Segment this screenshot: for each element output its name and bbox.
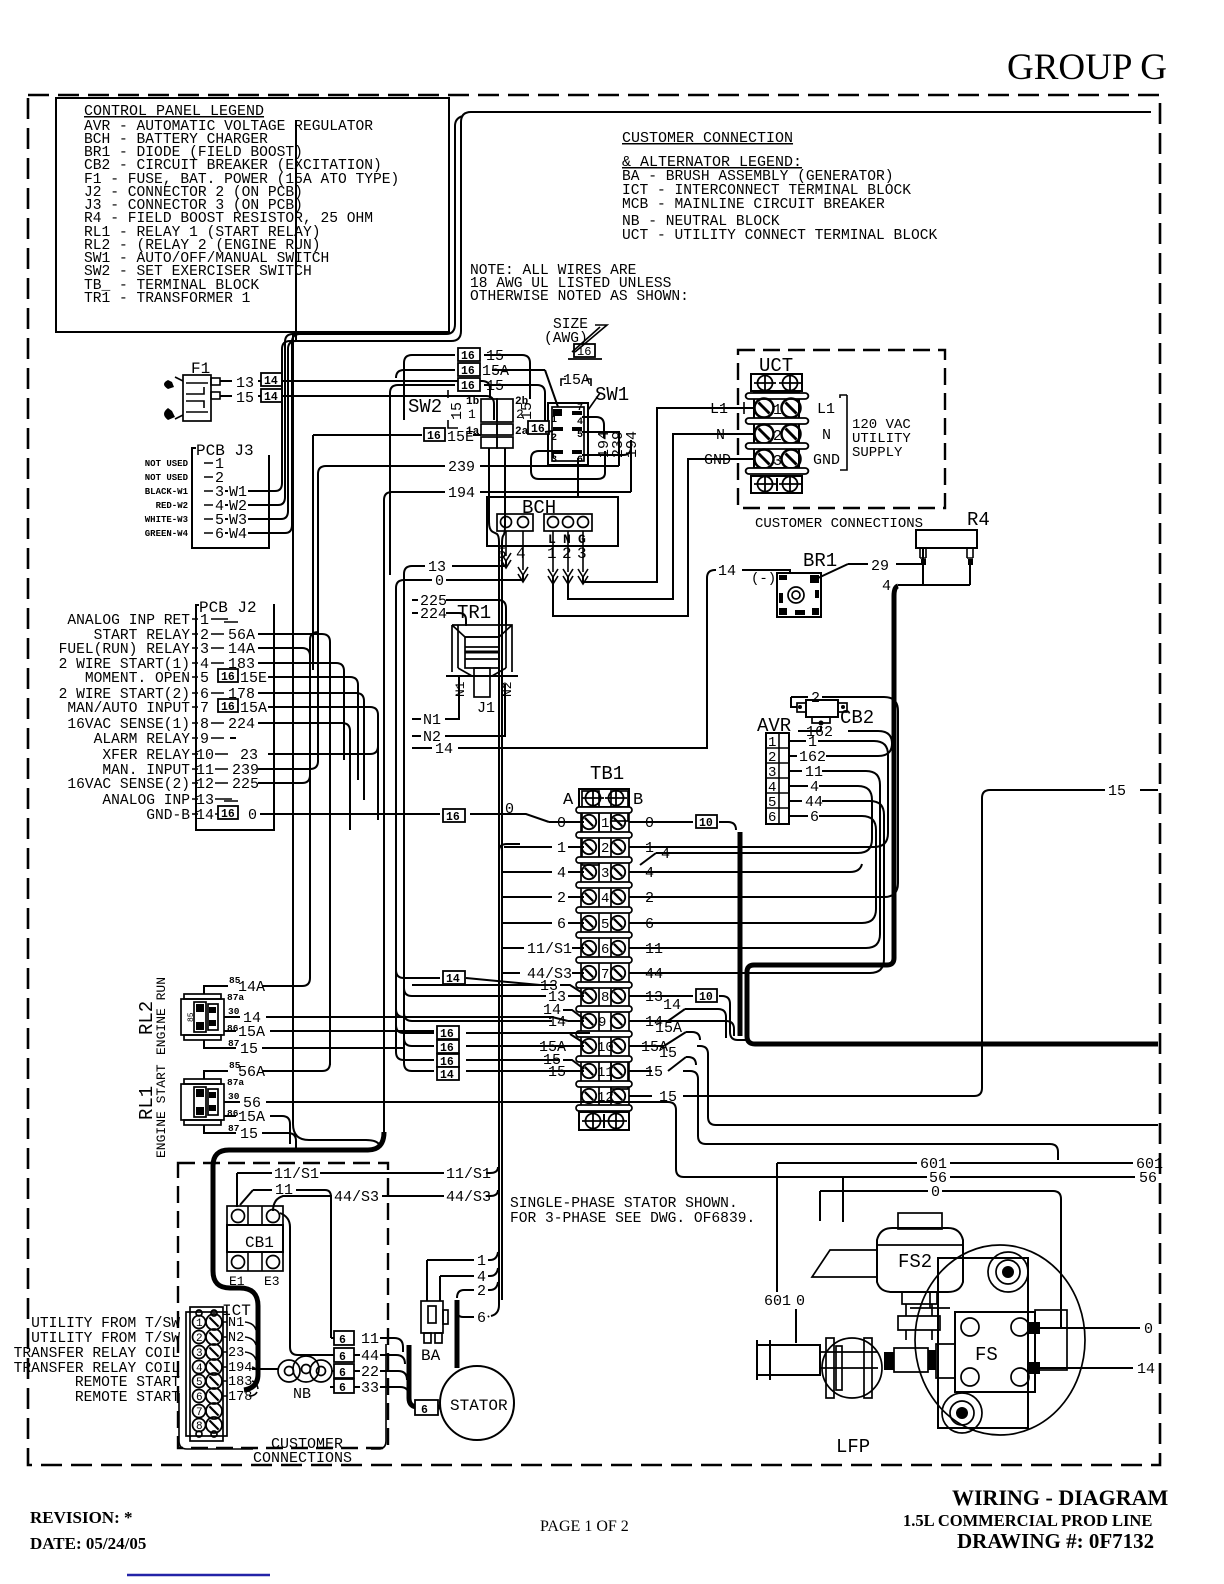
4 wire from R4 to thick bus <box>898 584 970 586</box>
svg-text:56: 56 <box>1139 1170 1157 1187</box>
wire 239 and wire 194 <box>318 466 619 700</box>
svg-text:16: 16 <box>577 345 591 359</box>
svg-text:GREEN-W4: GREEN-W4 <box>145 529 189 539</box>
svg-text:CONNECTIONS: CONNECTIONS <box>253 1450 352 1467</box>
svg-text:ALARM RELAY: ALARM RELAY <box>94 732 191 748</box>
control panel legend box <box>56 98 449 332</box>
svg-text:TRANSFER RELAY COIL: TRANSFER RELAY COIL <box>14 1346 180 1362</box>
svg-text:UTILITY FROM T/SW: UTILITY FROM T/SW <box>31 1316 180 1332</box>
svg-text:SW2: SW2 <box>408 396 442 418</box>
pins <box>553 409 582 454</box>
svg-text:9: 9 <box>598 1015 606 1031</box>
svg-text:2: 2 <box>811 690 820 707</box>
wire 4 heavy bus from R4 to border <box>747 586 1158 1044</box>
svg-text:SINGLE-PHASE STATOR SHOWN.: SINGLE-PHASE STATOR SHOWN. <box>510 1196 738 1212</box>
fuse F1 <box>164 360 494 421</box>
svg-text:N1: N1 <box>453 681 468 697</box>
svg-text:6: 6 <box>645 916 654 933</box>
14 wire long <box>412 578 707 748</box>
BA connector <box>421 1301 443 1333</box>
right connector <box>1035 1310 1067 1370</box>
svg-text:DRAWING #: 0F7132: DRAWING #: 0F7132 <box>957 1529 1154 1553</box>
svg-text:PCB J3: PCB J3 <box>196 442 254 460</box>
svg-text:1: 1 <box>468 407 476 422</box>
svg-text:GROUP G: GROUP G <box>1007 47 1167 88</box>
13 / 0 wires <box>412 560 506 566</box>
svg-text:14: 14 <box>440 1069 454 1082</box>
svg-text:12: 12 <box>597 1090 614 1106</box>
size (awg) callout <box>544 317 607 359</box>
svg-text:FS2: FS2 <box>898 1251 932 1273</box>
svg-text:6: 6 <box>215 526 224 543</box>
left bracket <box>757 1340 820 1380</box>
LFP <box>822 1338 882 1398</box>
svg-text:224: 224 <box>420 606 447 623</box>
svg-text:16: 16 <box>531 423 545 436</box>
svg-text:16: 16 <box>446 811 460 824</box>
B-side labels <box>641 815 682 1106</box>
svg-text:11/S1: 11/S1 <box>274 1166 319 1183</box>
outer dashed border <box>28 95 1160 1465</box>
svg-text:14: 14 <box>196 807 214 824</box>
svg-text:0: 0 <box>645 815 654 832</box>
svg-text:FS: FS <box>975 1344 998 1366</box>
svg-text:E3: E3 <box>264 1274 280 1289</box>
svg-text:15: 15 <box>240 1041 258 1058</box>
svg-text:44/S3: 44/S3 <box>446 1189 491 1206</box>
svg-text:4: 4 <box>645 865 654 882</box>
svg-text:N2: N2 <box>228 1331 244 1346</box>
svg-text:12: 12 <box>196 776 214 793</box>
FS2 body <box>877 1228 963 1292</box>
svg-text:11: 11 <box>645 941 663 958</box>
svg-text:6: 6 <box>768 810 776 826</box>
svg-text:225: 225 <box>232 776 259 793</box>
resistor R4 <box>916 509 990 585</box>
svg-text:178: 178 <box>228 1390 252 1405</box>
14 wire into BR1 <box>707 570 790 578</box>
svg-text:10: 10 <box>699 991 713 1004</box>
svg-text:4: 4 <box>601 891 609 907</box>
svg-text:194: 194 <box>624 431 641 458</box>
svg-text:86: 86 <box>227 1023 239 1034</box>
svg-text:2: 2 <box>557 890 566 907</box>
svg-text:0: 0 <box>505 801 514 818</box>
thick bus around CB1 <box>213 1132 384 1390</box>
svg-text:16: 16 <box>221 671 235 684</box>
svg-text:14: 14 <box>718 563 736 580</box>
rows <box>582 815 625 1106</box>
svg-text:15E: 15E <box>240 670 267 687</box>
svg-text:STATOR: STATOR <box>450 1397 508 1415</box>
svg-text:15: 15 <box>240 1126 258 1143</box>
svg-text:194: 194 <box>228 1361 252 1376</box>
svg-text:REMOTE START: REMOTE START <box>75 1390 180 1406</box>
svg-text:DATE: 05/24/05: DATE: 05/24/05 <box>30 1534 146 1553</box>
svg-text:L1: L1 <box>710 401 728 418</box>
svg-text:REVISION: *: REVISION: * <box>30 1508 133 1527</box>
svg-text:6: 6 <box>477 1310 486 1327</box>
svg-text:23: 23 <box>228 1346 244 1361</box>
wire bundle verticals (nets 13/14/15A/15) <box>395 588 397 1052</box>
svg-text:44: 44 <box>361 1348 379 1365</box>
svg-text:11/S1: 11/S1 <box>527 941 572 958</box>
svg-text:6: 6 <box>339 1367 346 1380</box>
svg-text:1: 1 <box>557 840 566 857</box>
svg-text:16VAC SENSE(2): 16VAC SENSE(2) <box>67 777 190 793</box>
15A 15A 15 15 wires <box>396 1025 590 1033</box>
svg-text:601: 601 <box>764 1293 791 1310</box>
svg-text:15: 15 <box>486 378 504 395</box>
svg-text:6: 6 <box>339 1351 346 1364</box>
svg-text:22: 22 <box>361 1364 379 1381</box>
svg-text:SW1: SW1 <box>595 384 629 406</box>
svg-text:16: 16 <box>461 380 475 393</box>
svg-text:16: 16 <box>461 350 475 363</box>
svg-text:85: 85 <box>187 1012 196 1022</box>
29 wire <box>818 548 923 578</box>
NB <box>278 1356 332 1382</box>
svg-text:44: 44 <box>645 966 663 983</box>
connection wires to UCT <box>553 459 747 616</box>
svg-text:11: 11 <box>361 1331 379 1348</box>
wire 56 from RL1 to fuel solenoid net <box>676 1110 843 1177</box>
svg-text:A: A <box>563 791 574 810</box>
svg-text:BLACK-W1: BLACK-W1 <box>145 487 189 497</box>
N1 N2 wires <box>412 676 459 719</box>
svg-text:2a: 2a <box>515 426 529 438</box>
svg-text:1: 1 <box>196 1318 203 1330</box>
svg-text:W4: W4 <box>229 526 247 543</box>
svg-text:B: B <box>633 791 643 810</box>
svg-text:15: 15 <box>548 1064 566 1081</box>
svg-text:OTHERWISE NOTED AS SHOWN:: OTHERWISE NOTED AS SHOWN: <box>470 289 689 305</box>
svg-text:2: 2 <box>601 841 609 857</box>
svg-text:4: 4 <box>577 417 583 428</box>
svg-text:UTILITY FROM T/SW: UTILITY FROM T/SW <box>31 1331 180 1347</box>
svg-text:7: 7 <box>577 403 583 414</box>
svg-text:XFER RELAY: XFER RELAY <box>102 748 190 764</box>
svg-text:R4: R4 <box>967 509 990 531</box>
note <box>470 263 689 305</box>
nut stack below FS2 <box>898 1292 940 1340</box>
svg-text:N1: N1 <box>228 1316 244 1331</box>
svg-text:15A: 15A <box>563 372 590 389</box>
wire 56 <box>843 1176 1135 1178</box>
svg-text:1: 1 <box>477 1253 486 1270</box>
svg-text:87a: 87a <box>227 1077 244 1088</box>
svg-text:10: 10 <box>597 1040 614 1056</box>
svg-text:N: N <box>822 427 831 444</box>
svg-text:J1: J1 <box>477 700 495 717</box>
svg-text:(-): (-) <box>751 571 776 587</box>
svg-text:224: 224 <box>228 716 255 733</box>
svg-text:5: 5 <box>601 917 609 933</box>
wires out of SW1 right <box>531 417 605 479</box>
FS body <box>915 1245 1085 1435</box>
transformer TR1 <box>412 578 707 758</box>
svg-text:15: 15 <box>449 402 466 420</box>
15E wire <box>424 428 445 443</box>
svg-text:GND: GND <box>813 452 840 469</box>
svg-text:FUEL(RUN) RELAY: FUEL(RUN) RELAY <box>59 642 191 658</box>
svg-text:ANALOG INP RET: ANALOG INP RET <box>67 613 190 629</box>
wire 162 <box>798 726 821 731</box>
svg-text:16: 16 <box>221 701 235 714</box>
svg-text:CUSTOMER CONNECTIONS: CUSTOMER CONNECTIONS <box>755 516 923 532</box>
svg-text:4: 4 <box>882 578 891 595</box>
svg-text:BR1: BR1 <box>803 550 837 572</box>
svg-text:15: 15 <box>236 390 254 407</box>
wire 0 fuel <box>820 1191 1061 1327</box>
svg-text:15A: 15A <box>238 1109 265 1126</box>
svg-text:10: 10 <box>699 817 713 830</box>
wires 15/15A/15 left of SW2 with tags <box>390 348 545 575</box>
svg-text:194: 194 <box>448 485 475 502</box>
svg-text:TB1: TB1 <box>590 763 624 785</box>
svg-text:1: 1 <box>773 402 782 419</box>
svg-text:3: 3 <box>601 866 609 882</box>
connector J3 (PCB J3) <box>145 334 300 548</box>
svg-text:WHITE-W3: WHITE-W3 <box>145 515 188 525</box>
valve stem left of FS2 <box>910 1292 950 1308</box>
wires <box>629 741 888 847</box>
svg-text:6: 6 <box>196 1392 203 1404</box>
svg-text:1: 1 <box>547 545 557 563</box>
svg-text:FOR 3-PHASE SEE DWG. OF6839.: FOR 3-PHASE SEE DWG. OF6839. <box>510 1211 755 1227</box>
TB1 A-side long wires to left bundle <box>260 588 590 1082</box>
svg-text:15: 15 <box>519 402 536 420</box>
svg-text:0: 0 <box>557 815 566 832</box>
svg-text:NOT USED: NOT USED <box>145 459 189 469</box>
svg-text:15A: 15A <box>240 700 267 717</box>
svg-text:4: 4 <box>557 865 566 882</box>
svg-text:14: 14 <box>264 391 278 404</box>
wire bus from PCB J3 W1-W4 <box>293 334 380 1146</box>
svg-text:11/S1: 11/S1 <box>446 1166 491 1183</box>
svg-text:3: 3 <box>551 455 557 466</box>
svg-text:87a: 87a <box>227 992 244 1003</box>
footer <box>30 1485 1169 1575</box>
svg-text:MAN/AUTO INPUT: MAN/AUTO INPUT <box>67 701 190 717</box>
svg-text:2: 2 <box>477 1283 486 1300</box>
AVR <box>629 715 892 973</box>
svg-text:LFP: LFP <box>836 1436 870 1458</box>
svg-text:CB1: CB1 <box>245 1234 274 1252</box>
wires 225/224 <box>412 600 506 625</box>
wire 13 from F1 <box>220 381 490 398</box>
thick wire into stator <box>409 1345 440 1407</box>
svg-text:6: 6 <box>421 1404 428 1417</box>
svg-text:5: 5 <box>196 1377 203 1389</box>
svg-text:8: 8 <box>196 1421 203 1433</box>
svg-text:2: 2 <box>551 433 557 444</box>
svg-text:14: 14 <box>663 997 681 1014</box>
svg-text:33: 33 <box>361 1380 379 1397</box>
svg-text:1.5L COMMERCIAL PROD LINE: 1.5L COMMERCIAL PROD LINE <box>903 1511 1152 1530</box>
svg-text:16VAC SENSE(1): 16VAC SENSE(1) <box>67 717 190 733</box>
svg-text:4: 4 <box>516 545 526 563</box>
svg-text:2: 2 <box>645 890 654 907</box>
svg-text:CB2: CB2 <box>840 707 874 729</box>
svg-text:CUSTOMER CONNECTION: CUSTOMER CONNECTION <box>622 130 793 147</box>
svg-text:16: 16 <box>461 365 475 378</box>
13/14 wires from left <box>396 588 556 985</box>
svg-text:0: 0 <box>796 1293 805 1310</box>
svg-text:44/S3: 44/S3 <box>334 1189 379 1206</box>
svg-text:3: 3 <box>196 1348 203 1360</box>
svg-text:239: 239 <box>448 459 475 476</box>
pills <box>576 807 632 1111</box>
breaker CB2 <box>629 690 898 897</box>
svg-text:TR1 - TRANSFORMER 1: TR1 - TRANSFORMER 1 <box>84 291 251 307</box>
svg-text:6: 6 <box>601 942 609 958</box>
svg-text:BA: BA <box>421 1347 441 1365</box>
wires 1/4/2/6 <box>427 1252 498 1301</box>
TB1 B-side wires <box>629 783 1158 1160</box>
wire 0 to FS <box>1040 1327 1140 1329</box>
switch SW2 <box>313 390 536 670</box>
svg-text:N: N <box>716 427 725 444</box>
svg-text:UCT - UTILITY CONNECT TERMINA: UCT - UTILITY CONNECT TERMINAL BLOCK <box>622 228 938 244</box>
svg-text:0: 0 <box>1144 1321 1153 1338</box>
svg-text:6: 6 <box>339 1334 346 1347</box>
wire harness from SW2 to stator (nets 1/4/2/6) <box>489 448 499 851</box>
svg-text:4: 4 <box>661 846 670 863</box>
extra outline rects <box>582 791 599 836</box>
svg-text:15: 15 <box>645 1064 663 1081</box>
svg-text:14: 14 <box>264 375 278 388</box>
svg-text:5: 5 <box>200 670 209 687</box>
stator circle <box>440 1366 514 1440</box>
svg-text:86: 86 <box>227 1108 239 1119</box>
pins <box>215 456 224 543</box>
svg-text:MCB - MAINLINE CIRCUIT BREAKER: MCB - MAINLINE CIRCUIT BREAKER <box>622 197 885 213</box>
pin ticks <box>192 619 198 814</box>
svg-text:GND-B: GND-B <box>146 808 190 824</box>
svg-text:0: 0 <box>931 1184 940 1201</box>
svg-text:30: 30 <box>228 1091 240 1102</box>
svg-text:7: 7 <box>200 700 209 717</box>
svg-text:30: 30 <box>228 1006 240 1017</box>
svg-text:SUPPLY: SUPPLY <box>852 445 903 461</box>
A-side wire stubs and labels <box>527 815 572 1081</box>
customer connection legend <box>622 130 938 244</box>
svg-text:PAGE 1 OF 2: PAGE 1 OF 2 <box>540 1518 629 1535</box>
svg-text:15: 15 <box>659 1045 677 1062</box>
svg-text:MOMENT. OPEN: MOMENT. OPEN <box>85 671 190 687</box>
svg-text:13: 13 <box>645 989 663 1006</box>
svg-text:3: 3 <box>577 545 587 563</box>
svg-text:9: 9 <box>200 731 209 748</box>
right wire labels <box>211 619 232 814</box>
svg-text:6: 6 <box>810 809 819 826</box>
svg-text:6: 6 <box>557 916 566 933</box>
wire 14 to FS <box>1040 1367 1133 1369</box>
wire 15 perimeter inner <box>293 116 463 334</box>
svg-text:BCH: BCH <box>522 497 556 519</box>
svg-text:GND: GND <box>704 452 731 469</box>
svg-text:NB: NB <box>293 1386 311 1403</box>
svg-text:ENGINE RUN: ENGINE RUN <box>154 977 169 1055</box>
wire 15 perimeter top <box>290 112 1151 341</box>
wire 2 <box>629 697 898 897</box>
svg-text:7: 7 <box>196 1407 203 1419</box>
svg-text:1: 1 <box>551 415 557 426</box>
svg-text:NOT USED: NOT USED <box>145 473 189 483</box>
svg-text:ANALOG INP: ANALOG INP <box>102 793 190 809</box>
svg-text:6: 6 <box>339 1382 346 1395</box>
svg-text:15E: 15E <box>447 429 474 446</box>
svg-text:16: 16 <box>440 1042 454 1055</box>
svg-text:CONTROL PANEL LEGEND: CONTROL PANEL LEGEND <box>84 103 264 120</box>
svg-text:15A: 15A <box>655 1020 682 1037</box>
svg-text:16: 16 <box>440 1028 454 1041</box>
battery charger BCH <box>396 408 747 616</box>
svg-text:ENGINE START: ENGINE START <box>154 1064 169 1158</box>
[6] tags and wires 11/44/22/33 <box>334 1331 354 1395</box>
44/S3 wire <box>273 1190 498 1211</box>
svg-text:14: 14 <box>435 741 453 758</box>
wire 11/S1 from CB1 <box>237 1167 498 1207</box>
svg-text:1: 1 <box>601 816 609 832</box>
diode BR1 <box>707 548 970 617</box>
svg-text:RED-W2: RED-W2 <box>156 501 188 511</box>
wire generator harness pair <box>491 851 499 1316</box>
svg-text:29: 29 <box>871 558 889 575</box>
svg-text:0: 0 <box>248 807 257 824</box>
svg-text:8: 8 <box>601 990 609 1006</box>
wire 15 from F1 <box>220 396 494 420</box>
svg-text:0: 0 <box>435 573 444 590</box>
svg-text:REMOTE START: REMOTE START <box>75 1375 180 1391</box>
svg-text:11: 11 <box>597 1065 614 1081</box>
svg-text:N1: N1 <box>423 712 441 729</box>
svg-text:2: 2 <box>196 1333 203 1345</box>
vertical drops with arrows <box>506 531 583 572</box>
svg-text:WIRING - DIAGRAM: WIRING - DIAGRAM <box>952 1485 1169 1510</box>
svg-text:14: 14 <box>1137 1361 1155 1378</box>
svg-text:16: 16 <box>427 430 441 443</box>
small connectors between LFP and FS <box>884 1350 936 1370</box>
switch SW1 <box>528 370 641 505</box>
svg-text:4: 4 <box>196 1363 203 1375</box>
svg-text:2: 2 <box>562 545 572 563</box>
svg-text:L1: L1 <box>817 401 835 418</box>
svg-text:15A: 15A <box>238 1024 265 1041</box>
svg-text:7: 7 <box>601 967 609 983</box>
wires out right with curves into vertical bundle <box>258 634 330 1065</box>
svg-text:15: 15 <box>1108 783 1126 800</box>
svg-text:16: 16 <box>221 808 235 821</box>
wire 601 <box>777 1162 1133 1164</box>
